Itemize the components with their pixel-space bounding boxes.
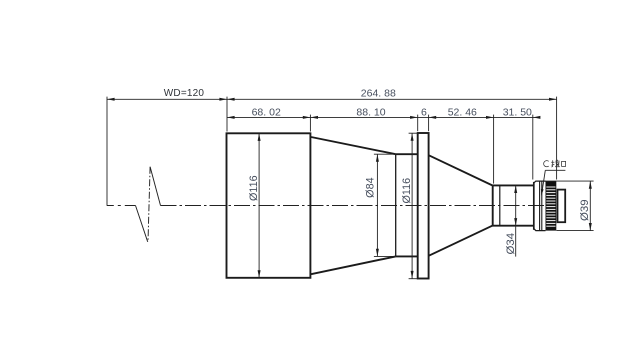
phi34 cylinder bottom edge: [492, 225, 534, 227]
arrows at 310.4 back to back: [303, 116, 311, 119]
extension x=556.6 rear end: [556, 97, 558, 180]
arrows phi39: [589, 181, 592, 189]
front barrel cylinder phi116: [227, 133, 311, 277]
dim line 68.02: [227, 116, 310, 118]
arrow 264.88 right: [549, 98, 557, 101]
arrow 264.88 left: [227, 98, 235, 101]
extension x=310.4: [309, 115, 311, 132]
svg-text:88. 10: 88. 10: [356, 107, 385, 119]
phi84 cylinder bottom edge: [396, 255, 418, 257]
extension x=428.6: [428, 115, 430, 132]
break diagonal lower-left: [136, 206, 148, 242]
phi34 cylinder top edge: [492, 184, 534, 186]
cone1 end edge: [395, 154, 397, 256]
svg-text:6: 6: [421, 107, 427, 119]
dim line phi34: [515, 185, 517, 256]
arrows phi34: [514, 185, 517, 193]
phi34 cylinder groove line: [499, 185, 501, 225]
break diagonal upper-right: [150, 167, 160, 206]
svg-text:52. 46: 52. 46: [448, 107, 477, 119]
dim line 6 + 52.46: [418, 116, 494, 118]
arrow at 417.7 pointing right: [410, 116, 418, 119]
arrow WD right: [219, 98, 227, 101]
dim line 264.88: [227, 98, 557, 100]
extension flange phi116 bottom: [409, 278, 418, 280]
dim line WD=120: [107, 98, 227, 100]
svg-text:WD=120: WD=120: [164, 88, 205, 99]
dim line phi116 flange: [411, 133, 413, 278]
glyph C: [544, 161, 549, 167]
arrow at 493.6 pointing right: [486, 116, 494, 119]
knurled focus ring (C-mount lock ring): [546, 181, 557, 231]
svg-text:Ø84: Ø84: [365, 177, 377, 197]
arrow WD left: [107, 98, 115, 101]
svg-text:264. 88: 264. 88: [361, 88, 396, 100]
arrows phi116 flange: [411, 133, 414, 141]
optical axis centerline left segment: [107, 205, 136, 207]
glyph jie (right part): [555, 160, 560, 167]
glyph jie (hand radical): [551, 160, 554, 167]
ring bottom edge with chamfers: [534, 229, 546, 231]
cone2 top edge: [429, 155, 493, 185]
extension phi39 top: [546, 180, 594, 182]
extension phi84 bottom: [374, 255, 396, 257]
dim line phi39: [589, 181, 591, 231]
svg-text:31. 50: 31. 50: [503, 107, 532, 119]
extension object plane x=107: [106, 97, 108, 206]
dim line phi116 front: [258, 133, 260, 277]
extension flange phi116 top: [409, 132, 418, 134]
break dash-dot vertical: [148, 167, 150, 242]
arrows phi84: [376, 154, 379, 162]
svg-text:Ø34: Ø34: [505, 233, 517, 255]
arrow 68.02 left: [227, 116, 235, 119]
arrows phi116 front: [258, 133, 261, 141]
cone2 bottom edge: [429, 226, 493, 256]
dim line 88.10: [310, 116, 417, 118]
ring inner line 1: [539, 181, 541, 231]
svg-text:Ø116: Ø116: [401, 178, 413, 204]
svg-text:Ø39: Ø39: [579, 199, 591, 221]
dim line 31.50: [494, 116, 540, 118]
flange phi116: [418, 133, 429, 279]
leader diagonal: [542, 170, 545, 192]
extension x=532.8: [532, 115, 534, 180]
phi84 cylinder top edge: [396, 153, 418, 155]
arrow at 532.8 pointing left (body right of line): [533, 116, 541, 119]
extension phi84 top: [374, 153, 396, 155]
cone1 bottom edge: [311, 256, 396, 274]
arrow at 428.6 pointing left (body right of line): [429, 116, 437, 119]
optical axis centerline main segment: [161, 205, 546, 207]
rear C-mount thread stub: [558, 190, 566, 223]
svg-text:68. 02: 68. 02: [252, 107, 281, 119]
leader landing line under text: [545, 169, 565, 171]
extension x=493.6: [493, 115, 495, 184]
leader arrowhead: [541, 189, 544, 196]
ring inner line 2: [541, 181, 543, 231]
dim line phi84: [376, 154, 378, 256]
extension x=417.7: [417, 115, 419, 132]
cone1 top edge: [311, 137, 396, 154]
svg-text:Ø116: Ø116: [248, 175, 260, 201]
extension lens front x=227: [226, 97, 228, 132]
ring top edge with chamfers: [534, 181, 546, 183]
phi34 cylinder left edge: [492, 185, 494, 225]
glyph kou (box): [562, 161, 566, 166]
extension phi39 bottom: [556, 230, 593, 232]
ring left face: [533, 182, 535, 230]
